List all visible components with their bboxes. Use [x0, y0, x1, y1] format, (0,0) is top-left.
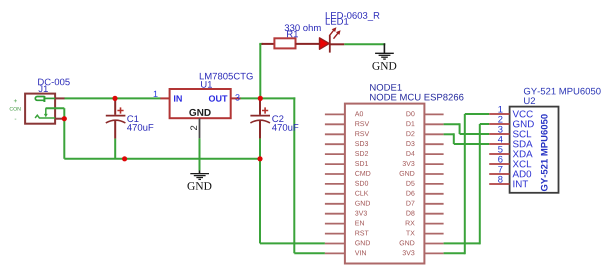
wire: node A to VIN riser corner [260, 97, 325, 253]
wire: GND to U2 GND [444, 124, 490, 244]
wire: ground rail down/right to NodeMCU GND pin [260, 159, 325, 244]
wire: LED cathode to ground corner [344, 43, 385, 45]
U2 pin stubs [489, 114, 509, 184]
junction node on ground rail [122, 156, 127, 161]
C2 label [272, 115, 283, 122]
module U2 GY-521 MPU6050 [510, 88, 601, 193]
ground symbol at LED [372, 43, 396, 69]
U2 pin numbers [498, 106, 503, 183]
NodeMCU left pin names [355, 111, 371, 255]
R1 label [287, 31, 298, 38]
module NODE1 NODE MCU ESP8266 [345, 84, 464, 264]
C1 label [127, 115, 138, 122]
junction node at C1 top [112, 96, 117, 101]
capacitor C1 [106, 98, 154, 158]
jack pin 3 wire over to junction [46, 107, 65, 109]
wire: D1 to U2 SCL [444, 123, 490, 134]
ground symbol below regulator [187, 171, 211, 190]
LED1 part name label [326, 12, 380, 21]
NodeMCU right pin stubs [424, 114, 443, 253]
wire: regulator pin2 to ground symbol [199, 138, 201, 170]
dc jack J1 [10, 79, 70, 124]
wire: regulator OUT to node A [240, 97, 261, 99]
U1 part name label LM7805CTG [200, 73, 253, 80]
jack switch lever [35, 115, 55, 118]
connector polarity labels [14, 99, 17, 102]
jack tip contact [35, 97, 44, 101]
jack pin 1 stub [55, 97, 64, 99]
LED1 label [326, 18, 349, 25]
J1 part name label DC-005 [38, 79, 70, 86]
LED1 emission arrows [329, 30, 334, 36]
J1 label [38, 85, 47, 92]
U2 pin names [513, 110, 534, 187]
junction node A at regulator OUT [258, 96, 263, 101]
junction node at jack negative [62, 116, 67, 121]
U1 pin 3 (OUT) stub [231, 97, 241, 99]
wire: bottom ground rail [64, 158, 261, 160]
LED1 LED-0603_R [320, 12, 380, 53]
regulator U1 LM7805CTG [154, 73, 253, 139]
R1 value 330 ohm [285, 24, 321, 31]
wire: D2 to U2 SDA [444, 133, 490, 144]
U1 pin 1 (IN) stub [160, 97, 169, 99]
junction node at C2 bottom [257, 156, 262, 161]
NodeMCU left pin stubs [325, 114, 345, 253]
wire: node A riser up to resistor R1 [259, 44, 263, 99]
C2 value 470uF [272, 124, 298, 131]
capacitor C2 [250, 98, 298, 158]
wire: 3V3 to U2 VCC [444, 114, 490, 254]
resistor R1 [262, 24, 321, 48]
U1 label [201, 81, 212, 88]
NodeMCU right pin names [400, 111, 415, 255]
jack pin 2 stub [55, 118, 64, 120]
wire: jack negative down to ground rail [63, 108, 65, 159]
U1 pin 2 (GND) lead [199, 118, 201, 138]
C1 value 470uF [127, 124, 153, 131]
wire: top 5V rail from jack to regulator IN [64, 97, 160, 99]
